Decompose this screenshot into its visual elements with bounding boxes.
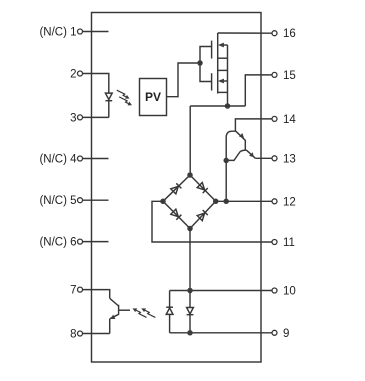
node bridge plus junction (223, 199, 229, 205)
pin 15 lead and wire to source rail (245, 75, 272, 106)
wire MOSFET common connector (227, 45, 229, 106)
wire source rail (190, 105, 245, 107)
pin 12 lead from bridge right node (216, 200, 272, 202)
svg-text:14: 14 (283, 114, 296, 126)
svg-text:PV: PV (145, 90, 161, 104)
pin 2 lead (82, 74, 108, 91)
MOSFET Q2 gate bar (211, 73, 213, 90)
bridge diode D3 top-right (197, 182, 208, 193)
MOSFET Q2 source stub (218, 91, 228, 93)
MOSFET Q2 body arrow (218, 79, 228, 84)
svg-text:3: 3 (70, 112, 76, 124)
pin 14 terminal circle (272, 116, 277, 121)
pin 11 terminal circle (272, 240, 277, 245)
pin 9 lead / lower LED rail (170, 332, 273, 334)
MOSFET Q1 body arrow (218, 43, 228, 48)
wire source rail down to bridge top (189, 106, 191, 175)
pin 7 lead (82, 290, 109, 299)
pin 6 lead (82, 241, 108, 243)
pin 4 terminal circle (78, 156, 83, 161)
PV photovoltaic cell block (140, 79, 167, 116)
pin 9 terminal circle (272, 330, 277, 335)
transistor Q5 base arc (240, 150, 246, 151)
pin 8 terminal circle (78, 331, 83, 336)
svg-text:16: 16 (283, 28, 296, 40)
LED D7 (down diode, middle leg) (187, 291, 194, 333)
transistor Q4 body and emitter (226, 131, 245, 160)
pin 8 lead (82, 333, 109, 335)
node LED rail top junction (187, 288, 193, 294)
svg-text:(N/C) 6: (N/C) 6 (39, 237, 76, 249)
MOSFET Q1 source stub (218, 57, 228, 59)
svg-text:(N/C) 1: (N/C) 1 (39, 27, 76, 39)
LED D1 (input LED pins 2-3) (105, 90, 112, 117)
pin 5 lead (82, 199, 108, 201)
wire bridge minus to pin 11 (152, 201, 272, 242)
transistor Q4 collector wire from pin 14 (235, 119, 272, 131)
pin 1 terminal circle (78, 29, 83, 34)
wire PV output to MOSFET gate bus (167, 63, 201, 97)
MOSFET Q2 drain stub (218, 69, 228, 71)
phototransistor Q3 (pins 7-8) (110, 298, 130, 333)
pin 6 terminal circle (78, 239, 83, 244)
light arrow from LED to PV (lower) (117, 97, 132, 108)
wire bridge bottom down to LED rail (189, 229, 191, 291)
svg-text:8: 8 (70, 329, 76, 341)
MOSFET channel bar (217, 33, 219, 94)
pin 2 terminal circle (78, 71, 83, 76)
pin 3 lead (82, 116, 108, 118)
svg-text:10: 10 (283, 286, 296, 298)
pin 4 lead (82, 158, 108, 160)
svg-text:11: 11 (283, 237, 295, 249)
pin 7 terminal circle (78, 287, 83, 292)
node Q collector rail junction (223, 158, 229, 164)
svg-text:7: 7 (70, 285, 76, 297)
pin 10 terminal circle (272, 288, 277, 293)
pin 13 terminal circle (272, 156, 277, 161)
pin 15 terminal circle (272, 72, 277, 77)
pin 16 terminal circle (272, 31, 277, 36)
svg-text:9: 9 (283, 328, 289, 340)
node LED rail bottom junction (187, 330, 193, 336)
pin 3 terminal circle (78, 115, 83, 120)
transistor Q5 collector wire (226, 152, 240, 161)
bridge diode D4 bottom-left (171, 209, 182, 220)
svg-text:2: 2 (70, 69, 76, 81)
svg-text:(N/C) 4: (N/C) 4 (39, 154, 77, 166)
wire rail from transistors to bridge output (225, 160, 227, 201)
light arrow from LED to PV (upper) (115, 90, 130, 101)
node gate bus junction (197, 60, 203, 66)
bridge diode D2 top-left (171, 183, 182, 194)
bridge node bottom (187, 226, 193, 232)
svg-text:12: 12 (283, 196, 296, 208)
bridge node left (160, 199, 166, 205)
wire gate bus (200, 47, 212, 82)
light arrow to phototransistor (upper) (132, 307, 149, 318)
pin 1 lead (82, 31, 108, 33)
pin 13 lead (255, 157, 272, 159)
svg-text:(N/C) 5: (N/C) 5 (39, 195, 76, 207)
pin 12 terminal circle (272, 199, 277, 204)
bridge node top (187, 172, 193, 178)
bridge node right (213, 199, 219, 205)
svg-text:13: 13 (283, 153, 296, 165)
pin 10 lead / upper LED rail (170, 290, 273, 292)
pin 16 lead and wire to MOSFET drain (218, 32, 272, 34)
diode bridge outline (163, 175, 216, 229)
pin 5 terminal circle (78, 198, 83, 203)
node source rail junction (225, 103, 231, 109)
svg-text:15: 15 (283, 70, 296, 82)
light arrow to phototransistor (lower) (140, 307, 157, 318)
IC body outline (92, 13, 262, 363)
LED D6 (up diode, left leg) (166, 291, 173, 333)
transistor Q5 emitter with arrow (247, 150, 256, 158)
bridge diode D5 bottom-right (197, 210, 208, 221)
MOSFET Q1 gate bar (211, 41, 213, 59)
